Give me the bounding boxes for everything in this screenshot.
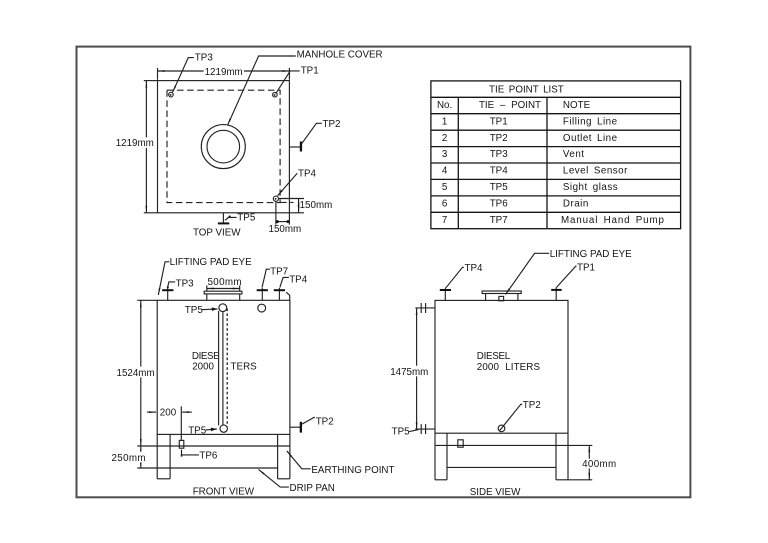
svg-text:TIE – POINT: TIE – POINT — [479, 100, 541, 111]
table column line 1 — [457, 97, 459, 228]
label TP2 with leader — [301, 123, 322, 144]
sight glass top fitting circle — [219, 304, 227, 312]
top view tank outline — [158, 81, 290, 213]
svg-text:FRONT VIEW: FRONT VIEW — [193, 487, 255, 498]
svg-text:TP5: TP5 — [237, 213, 256, 224]
dim 1524mm top extension — [137, 299, 157, 301]
svg-text:TP5: TP5 — [490, 182, 509, 193]
drawing border frame — [77, 47, 691, 498]
label TP5 lower with arrow leader — [206, 428, 217, 431]
svg-text:Sight glass: Sight glass — [563, 182, 618, 193]
label TP5 upper with arrow leader — [202, 308, 218, 311]
TP1 nozzle stem — [555, 287, 557, 300]
svg-text:MANHOLE COVER: MANHOLE COVER — [297, 49, 383, 60]
TP4 nozzle tick — [274, 289, 285, 291]
label TP4 with leader — [446, 267, 464, 288]
svg-text:TP6: TP6 — [199, 450, 218, 461]
svg-text:TP2: TP2 — [316, 417, 334, 428]
label TP7 with leader — [262, 269, 270, 287]
svg-text:Drain: Drain — [563, 199, 589, 210]
dim 150mm vertical : dimension line — [298, 199, 300, 213]
TP6 drain valve — [179, 440, 184, 448]
label DRIP PAN with arrow leader — [259, 469, 289, 487]
dim 400mm dimension line — [588, 445, 590, 479]
TP7 nozzle tick — [257, 289, 268, 291]
label LIFTING PAD EYE with arrow leader — [506, 253, 550, 294]
svg-text:2: 2 — [442, 133, 447, 144]
dim 150mm vertical : extension lines — [279, 198, 304, 200]
label TP2 with leader — [500, 404, 523, 430]
dim 1524mm dimension line — [140, 300, 142, 446]
svg-text:LIFTING PAD EYE: LIFTING PAD EYE — [170, 257, 252, 268]
svg-text:200: 200 — [160, 407, 177, 418]
svg-text:TOP VIEW: TOP VIEW — [193, 228, 241, 239]
svg-text:No.: No. — [437, 100, 452, 111]
svg-text:2000: 2000 — [192, 361, 214, 372]
svg-text:TP2: TP2 — [523, 400, 541, 411]
table row line 7 — [431, 195, 681, 197]
side drip pan top line — [435, 444, 568, 446]
side drain valve block — [458, 440, 463, 447]
lifting pad eye plate at right corner — [286, 292, 290, 300]
label TP5 with leader — [409, 430, 418, 432]
label TP6 with arrow leader — [182, 450, 199, 455]
label TP2 with leader — [301, 418, 315, 425]
svg-text:TP4: TP4 — [465, 263, 484, 274]
dim 200 right arrow — [182, 411, 192, 413]
svg-text:1: 1 — [442, 116, 447, 127]
dim 150mm horizontal : extension lines — [275, 202, 277, 225]
table row line 5 — [431, 162, 681, 164]
dashed line extension right of TP4 — [280, 201, 293, 203]
side tank body — [435, 300, 568, 433]
label TP4 with leader — [278, 173, 298, 195]
manhole flange — [204, 291, 242, 294]
TP2 nozzle tick — [300, 422, 302, 433]
svg-text:1219mm: 1219mm — [205, 67, 243, 78]
sight glass top fitting ticks — [420, 303, 422, 313]
front tank body — [157, 300, 290, 434]
TP1 nozzle tick — [551, 289, 562, 291]
side manhole flange — [482, 291, 521, 294]
dim 400mm extension lines — [568, 444, 592, 446]
sight glass gauge dashed line — [226, 309, 228, 427]
TP5 nozzle line — [222, 213, 224, 223]
label TP5 with leader — [225, 217, 237, 220]
svg-text:Outlet Line: Outlet Line — [563, 133, 618, 144]
manhole neck left line — [206, 294, 208, 300]
table column line 2 — [546, 97, 548, 228]
label TP3 with leader — [168, 282, 175, 287]
front left leg — [156, 434, 158, 478]
label TP1 with leader — [556, 266, 576, 287]
TP3 nozzle circle — [169, 92, 174, 97]
dim 1475mm bottom connector — [415, 428, 435, 430]
svg-text:150mm: 150mm — [300, 200, 333, 211]
svg-text:250mm: 250mm — [112, 453, 146, 464]
svg-text:Vent: Vent — [563, 149, 585, 160]
svg-text:EARTHING POINT: EARTHING POINT — [311, 465, 394, 476]
TP5 nozzle tick — [218, 222, 229, 224]
svg-text:SIDE VIEW: SIDE VIEW — [470, 487, 521, 498]
table row line 4 — [431, 146, 681, 148]
svg-text:TP2: TP2 — [490, 133, 508, 144]
svg-text:TP5: TP5 — [392, 427, 411, 438]
svg-text:TP1: TP1 — [301, 65, 319, 76]
svg-text:DIESEL: DIESEL — [477, 351, 511, 362]
TP3 nozzle stem — [167, 287, 169, 300]
label TP4 with leader — [280, 277, 289, 287]
TP1 nozzle circle — [273, 92, 278, 97]
svg-text:2000 LITERS: 2000 LITERS — [477, 362, 541, 373]
svg-text:TP1: TP1 — [577, 263, 595, 274]
svg-text:Manual Hand Pump: Manual Hand Pump — [561, 215, 665, 226]
table row line 8 — [431, 211, 681, 213]
svg-text:4: 4 — [442, 166, 448, 177]
dim 1219mm vertical : extension lines — [144, 80, 158, 82]
table row line 1 — [431, 96, 681, 98]
TP6 extension line — [180, 406, 182, 440]
front right leg — [277, 434, 279, 478]
svg-text:TP4: TP4 — [490, 166, 509, 177]
svg-text:TP4: TP4 — [289, 274, 308, 285]
sight glass tube left line — [218, 311, 220, 426]
dim 500mm extension ticks — [206, 285, 208, 291]
manhole neck right line — [239, 294, 241, 300]
svg-text:TP2: TP2 — [323, 119, 341, 130]
side left leg — [434, 433, 436, 480]
dim 250mm dimension line — [140, 446, 142, 468]
dim 1475mm top connector — [415, 307, 435, 309]
table row line 3 — [431, 129, 681, 131]
dim 200 left arrow — [147, 411, 156, 413]
label LIFTING PAD EYE with leader arrow — [158, 262, 169, 295]
svg-text:1475mm: 1475mm — [390, 367, 428, 378]
svg-text:1524mm: 1524mm — [117, 368, 155, 379]
side drip pan bottom line — [447, 466, 556, 468]
svg-text:DRIP PAN: DRIP PAN — [290, 483, 335, 494]
TP4 nozzle circle — [273, 196, 278, 201]
svg-text:6: 6 — [442, 199, 448, 210]
manhole cover outer circle — [201, 125, 245, 169]
tie point list table outer border — [431, 81, 681, 229]
TP2 nozzle line — [290, 426, 301, 428]
manhole cover inner circle — [207, 130, 240, 163]
svg-text:7: 7 — [442, 215, 447, 226]
TP2 outlet circle — [498, 425, 505, 432]
side manhole neck left — [485, 294, 487, 301]
sight glass bottom fitting circle — [220, 425, 227, 432]
svg-text:TP5: TP5 — [188, 426, 207, 437]
TP7 pump connection circle — [258, 304, 266, 312]
side manhole neck right — [517, 294, 519, 301]
TP3 nozzle tick — [162, 289, 173, 291]
dim 1219mm vertical : dimension line — [145, 81, 147, 213]
svg-text:TP7: TP7 — [490, 215, 508, 226]
svg-text:TIE POINT LIST: TIE POINT LIST — [489, 84, 564, 95]
TP7 nozzle stem — [261, 288, 263, 300]
svg-text:Level Sensor: Level Sensor — [563, 166, 628, 177]
svg-text:LIFTING PAD EYE: LIFTING PAD EYE — [550, 249, 632, 260]
drip pan top line — [137, 445, 290, 447]
TP2 nozzle line — [289, 146, 301, 148]
TP4 nozzle tick — [440, 289, 451, 291]
dim 1219mm horizontal : extension lines — [157, 68, 159, 80]
svg-text:TP4: TP4 — [298, 169, 317, 180]
svg-text:TP6: TP6 — [490, 199, 509, 210]
lifting pad eye block — [499, 296, 504, 300]
TP4 nozzle stem — [278, 288, 280, 300]
svg-text:5: 5 — [442, 182, 448, 193]
svg-text:400mm: 400mm — [582, 459, 616, 470]
TP2 nozzle tick — [300, 142, 302, 152]
svg-text:TP1: TP1 — [490, 116, 508, 127]
table row line 6 — [431, 178, 681, 180]
label EARTHING POINT with arrow leader — [287, 451, 311, 469]
svg-text:TP3: TP3 — [195, 52, 214, 63]
dim 1219mm horizontal : dimension line — [158, 70, 290, 72]
dim 150mm horizontal : dimension line with dot ends — [276, 221, 290, 223]
svg-text:TP5: TP5 — [185, 305, 204, 316]
svg-text:Filling Line: Filling Line — [563, 116, 618, 127]
top view inner dashed outline — [167, 90, 280, 202]
svg-text:3: 3 — [442, 149, 448, 160]
table row line 2 — [431, 113, 681, 115]
svg-text:TP7: TP7 — [270, 267, 288, 278]
svg-text:150mm: 150mm — [269, 224, 302, 235]
label MANHOLE COVER with leader — [228, 56, 296, 125]
sight glass whiteout — [218, 311, 230, 425]
dim 500mm dimension line — [207, 288, 240, 290]
sight glass tube inner line — [222, 311, 224, 425]
sight glass bottom fitting ticks — [420, 424, 422, 434]
svg-text:1219mm: 1219mm — [116, 138, 154, 149]
label TP1 with leader — [276, 71, 300, 94]
svg-text:TP3: TP3 — [176, 278, 195, 289]
side right leg — [555, 433, 557, 480]
drip pan bottom line — [137, 467, 278, 469]
TP4 nozzle stem — [444, 288, 446, 300]
svg-text:NOTE: NOTE — [563, 100, 591, 111]
label TP3 with leader — [173, 58, 194, 93]
svg-text:TP3: TP3 — [490, 149, 509, 160]
dim 1475mm dimension line — [416, 308, 418, 429]
svg-text:500mm: 500mm — [208, 277, 242, 288]
